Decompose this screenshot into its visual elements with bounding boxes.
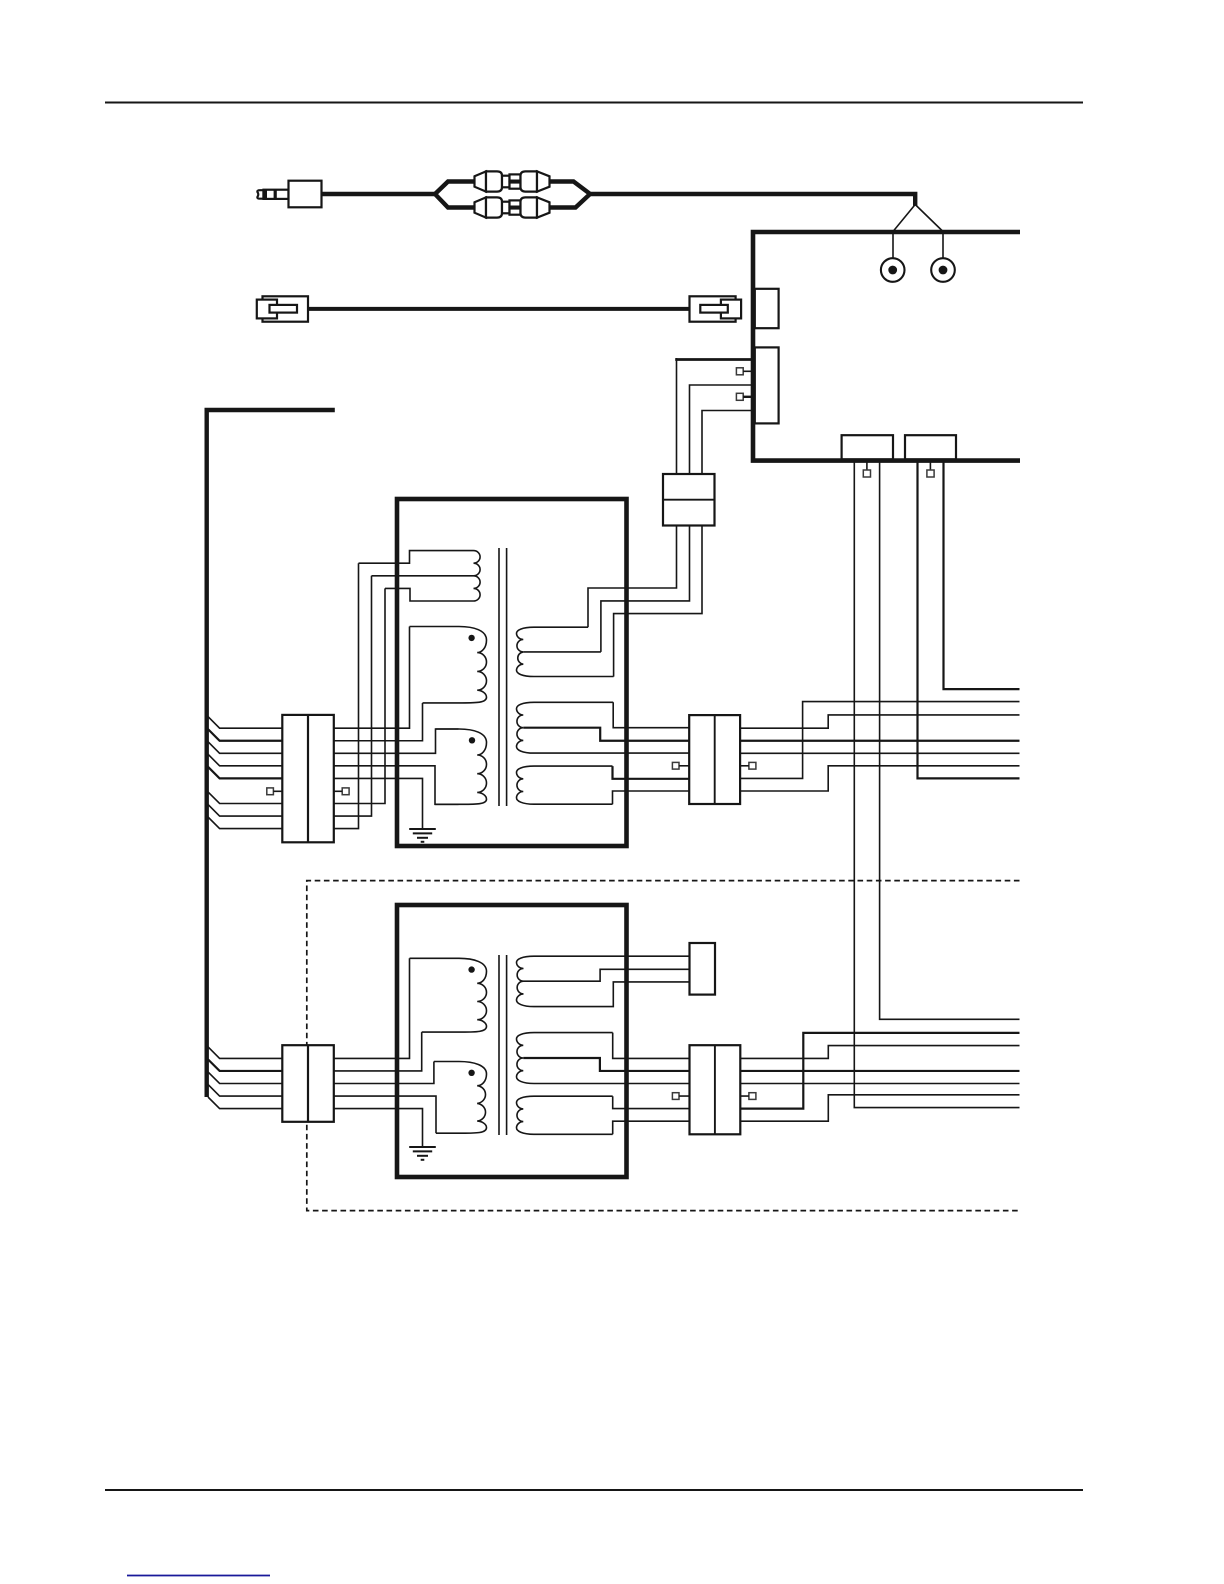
wire: head unit pin 1 horizontal (thick) <box>675 358 755 361</box>
transformer T1 secondary winding 2 (middle) <box>517 702 690 753</box>
wire: connector to input winding lead 3 (riser) <box>334 588 385 803</box>
wire: connector to primary B top <box>334 729 459 753</box>
hyperlink underline <box>127 1575 270 1577</box>
wire: secondary 3 bottom lead to output connector <box>613 791 690 804</box>
wire: secondary 2 top lead jog to output connector <box>613 1033 690 1059</box>
RCA adapter pair 2 left plug collar <box>502 202 510 214</box>
input winding L1 (serpentine coil, top left) <box>359 551 481 601</box>
wire: fan lead 1 to lower connector <box>208 1047 282 1059</box>
RJ plug right body <box>690 296 736 321</box>
ground symbol (upper transformer) <box>409 828 436 830</box>
head unit harness connector (left edge) <box>755 347 779 423</box>
wire: secondary 2 tap to output connector (thick) <box>523 728 689 741</box>
mini-jack plug P1 ring band 1 <box>264 190 267 199</box>
wire: connector to primary A top (via riser) <box>334 627 410 729</box>
primary A polarity dot <box>468 635 474 641</box>
mini-jack plug P1 tip <box>257 190 263 199</box>
wire: connector to input winding lead 1 (riser) <box>334 563 359 828</box>
RJ plug left contact tab <box>270 305 298 313</box>
wire: connector to primary B bottom <box>334 1096 436 1133</box>
RCA adapter pair 1 left plug collar <box>502 176 510 188</box>
CN4 no-connect pin right <box>749 1093 756 1100</box>
wire: head unit pin 2 to filter and secondary tap <box>601 385 755 652</box>
wire: CN4 output 5 with jog up <box>740 1095 1019 1121</box>
mini-jack plug P1 ring band 2 <box>274 190 277 199</box>
head unit rear connector A (bottom) <box>842 435 893 459</box>
RCA adapter pair 1 left plug body <box>486 171 502 191</box>
lower output connector block CN4 <box>690 1045 741 1134</box>
RCA adapter pair 1 right taper <box>537 171 550 191</box>
wire: stereo cable from mini-jack plug to split point <box>320 192 436 196</box>
wire: harness lead 1 from bottom connector A down to lower interconnect <box>854 458 1019 1108</box>
RCA adapter pair 2 mating pin lower <box>510 209 521 215</box>
ferrite filter block FL1 <box>663 474 715 526</box>
AUX input jack left (circle) <box>881 258 905 282</box>
transformer T2 secondary winding 3 (bottom) <box>517 1096 613 1134</box>
RCA adapter pair 1 right jack body <box>521 171 538 191</box>
transformer T1 secondary winding 3 (bottom) <box>517 766 613 804</box>
CN1 no-connect pin left <box>267 788 274 795</box>
transformer T2 core <box>498 955 500 1135</box>
wire: connector to primary B bottom <box>334 766 459 804</box>
wire: connector to primary A bottom <box>334 1032 422 1071</box>
wire: modular cable between RJ plugs <box>306 307 691 311</box>
wire: main speaker bus (thick L from top left) <box>207 410 335 1097</box>
wire: secondary 2 top lead jog to output connector <box>613 702 689 727</box>
upper output connector block CN2 <box>689 715 740 804</box>
aux output connector CN5 (small) <box>690 943 716 995</box>
top rule <box>105 102 1083 104</box>
wire: CN4 output 4 with long jog up (thick) <box>740 1033 1019 1109</box>
transformer T2 primary winding B <box>434 1062 487 1134</box>
wire: fan lead 3 to lower connector <box>208 1072 282 1084</box>
wire: Y leg to right AUX jack <box>915 205 943 259</box>
wire: secondary 2 tap to output connector (thick) <box>523 1058 689 1071</box>
wire: split branch lower to RCA pair 2 <box>435 194 476 208</box>
RJ plug left body <box>263 296 309 321</box>
CN2 no-connect pin left <box>672 762 679 769</box>
transformer T2 enclosure box <box>397 905 627 1177</box>
mini-jack plug P1 shaft <box>264 190 289 199</box>
wire: fan lead 4 to upper connector <box>208 754 282 766</box>
wire: CN2 output 5 with jog up <box>740 766 1019 791</box>
wire: merge branch upper from RCA pair 1 <box>549 182 590 194</box>
RCA adapter pair 2 left plug body <box>486 197 502 217</box>
CN1 no-connect pin right <box>342 788 349 795</box>
connector CN4 divider <box>714 1045 716 1134</box>
AUX input jack right (circle) <box>931 258 955 282</box>
primary A polarity dot <box>468 966 474 972</box>
connector CN2 divider <box>714 715 716 804</box>
wire: connector to primary A top (riser) <box>334 958 410 1058</box>
transformer T2 secondary winding 2 (middle) <box>517 1033 690 1084</box>
wire: connector to primary A bottom <box>334 703 423 741</box>
ferrite filter FL1 divider <box>663 499 715 501</box>
dashed option enclosure <box>307 881 1020 1211</box>
RCA adapter pair 1 mating pin upper <box>510 174 521 180</box>
transformer T1 core <box>498 548 500 806</box>
no-connect pin at harness connector upper <box>736 368 743 375</box>
RCA adapter pair 2 mating pin upper <box>510 200 521 206</box>
RCA adapter pair 1 mating pin center <box>510 180 521 182</box>
wire: fan lead 5 to upper connector <box>208 767 282 779</box>
transformer T1 primary winding A <box>410 627 487 703</box>
lower input connector block CN3 <box>282 1045 334 1122</box>
head unit rear connector B (bottom) <box>905 435 956 459</box>
bottom rule <box>105 1489 1083 1491</box>
RCA adapter pair 2 left taper <box>475 197 487 217</box>
RJ plug right latch nose <box>721 300 741 319</box>
wire: split branch upper to RCA pair 1 <box>435 182 476 195</box>
RCA adapter pair 2 mating pin center <box>510 206 521 208</box>
transformer T2 secondary winding 1 (top) <box>517 956 690 1006</box>
transformer T2 primary winding A <box>410 958 487 1032</box>
wire: Y leg to left AUX jack <box>893 205 915 259</box>
wire: harness lead 2 from bottom connector A down to lower interconnect <box>880 458 1020 1019</box>
wire: fan lead 5 to lower connector <box>208 1097 282 1109</box>
wire: connector to input winding tap (riser) <box>334 576 372 816</box>
wire: connector to internal ground <box>334 778 423 829</box>
transformer T1 primary winding B <box>435 729 487 804</box>
transformer T1 secondary winding 1 (top) <box>517 627 614 676</box>
mini-jack plug P1 body <box>289 181 322 208</box>
RJ plug right contact tab <box>700 305 728 313</box>
RCA adapter pair 2 right jack body <box>521 197 538 217</box>
wire: harness lead 4 from bottom connector B to right edge <box>944 458 1020 689</box>
head unit RJ input connector (left edge) <box>755 289 779 328</box>
wire: harness lead 3 from bottom connector B to right edge <box>918 458 1020 778</box>
wire: CN4 output 2 (thick straight) <box>740 1070 1019 1072</box>
wire: fan lead 1 to upper connector <box>208 717 282 729</box>
wire: fan lead 2 to lower connector <box>208 1059 282 1071</box>
wire: secondary 3 top lead to output connector (thick) <box>613 766 690 779</box>
wire: CN2 output 2 (thick straight) <box>740 740 1019 742</box>
wire: fan lead 3 to upper connector <box>208 742 282 754</box>
RCA adapter pair 1 mating pin lower <box>510 183 521 189</box>
no-connect pin stub under connector B <box>929 458 931 470</box>
wire: fan lead 7 to upper connector <box>208 804 282 816</box>
RCA adapter pair 1 left taper <box>475 171 487 191</box>
wire: connector to primary B top <box>334 1062 434 1084</box>
input winding L1 center tap <box>372 575 474 577</box>
CN4 no-connect pin left <box>672 1093 679 1100</box>
wire: merge branch lower from RCA pair 2 <box>549 195 590 208</box>
wire: head unit pin 3 to filter and secondary bottom <box>614 411 755 677</box>
connector CN1 divider <box>307 715 309 842</box>
primary B polarity dot <box>468 1070 474 1076</box>
wire: CN4 output 3 straight <box>740 1083 1019 1085</box>
wire: CN4 output 1 with jog up <box>740 1046 1019 1059</box>
wire: CN2 output 3 straight <box>740 752 1019 754</box>
wire: secondary 3 bottom lead to output connector <box>613 1121 690 1134</box>
wire: connector to internal ground <box>334 1109 423 1147</box>
wire: fan lead 6 to upper connector <box>208 792 282 804</box>
connector CN3 divider <box>307 1045 309 1122</box>
wire: main cable to head unit with elbow down <box>589 194 916 206</box>
upper input connector block CN1 <box>282 715 334 842</box>
wire: CN2 output 1 with jog up <box>740 715 1019 728</box>
no-connect pin at harness connector lower (thick stub) <box>736 393 743 400</box>
wire: CN2 output 4 with long jog up <box>740 702 1019 779</box>
transformer T1 enclosure box <box>397 499 627 846</box>
secondary 1 tap lead <box>523 651 601 653</box>
wire: fan lead 2 to upper connector <box>208 729 282 741</box>
ground symbol (lower transformer) <box>409 1146 436 1148</box>
wire: secondary 3 top lead to output connector <box>613 1096 690 1108</box>
no-connect pin stub under connector A <box>866 458 868 470</box>
wire: fan lead 8 to upper connector <box>208 817 282 829</box>
wire: head unit pin 1 to filter and transformer secondary top <box>588 358 677 627</box>
RJ plug left latch nose <box>257 300 277 319</box>
primary B polarity dot <box>469 737 475 743</box>
CN2 no-connect pin right <box>749 762 756 769</box>
RCA adapter pair 2 right taper <box>537 197 550 217</box>
head unit chassis outline (open box) <box>753 232 1020 461</box>
wire: secondary 1 tap with jog to aux connector <box>524 969 690 981</box>
wire: fan lead 4 to lower connector <box>208 1084 282 1096</box>
